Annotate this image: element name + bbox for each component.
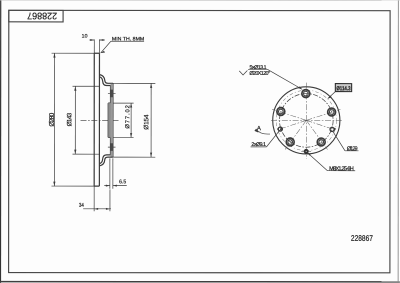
svg-text:Ø129: Ø129	[347, 146, 358, 152]
svg-text:228867: 228867	[351, 234, 373, 243]
svg-text:Ø77.02: Ø77.02	[125, 105, 131, 129]
svg-text:228867: 228867	[27, 10, 57, 21]
svg-text:2xØ9.1: 2xØ9.1	[251, 142, 266, 148]
svg-text:Ø143: Ø143	[66, 112, 73, 126]
svg-text:6.5: 6.5	[119, 179, 126, 185]
svg-text:10: 10	[82, 34, 88, 40]
svg-text:A: A	[257, 126, 261, 132]
svg-text:34: 34	[79, 203, 84, 209]
svg-text:M8X1.25-6H: M8X1.25-6H	[329, 166, 354, 172]
svg-text:MIN TH. 8MM: MIN TH. 8MM	[112, 36, 144, 42]
svg-text:Ø154: Ø154	[143, 114, 150, 130]
svg-text:Ø114.3: Ø114.3	[336, 86, 351, 92]
svg-text:Ø280: Ø280	[49, 112, 56, 126]
svg-text:Ø20X120°: Ø20X120°	[249, 71, 270, 77]
